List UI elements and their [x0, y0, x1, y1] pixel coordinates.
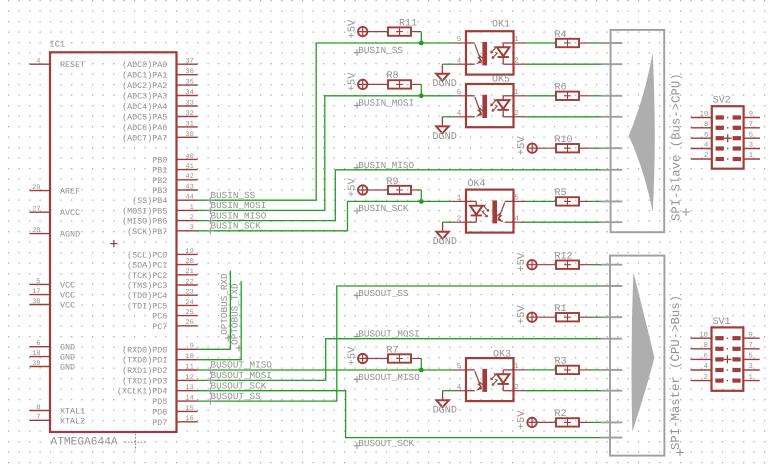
wire R3 to bus red [579, 369, 591, 371]
IC1 pin 28 AGND [30, 227, 81, 240]
IC1 origin cross [125, 434, 148, 451]
svg-text:21: 21 [185, 268, 193, 276]
svg-text:R6: R6 [555, 83, 567, 94]
bus arrow (pointing right) [632, 272, 655, 432]
svg-text:4: 4 [36, 58, 40, 66]
svg-text:OPTOBUS_RXD: OPTOBUS_RXD [219, 273, 230, 335]
bus stub at y170 [601, 169, 622, 171]
svg-text:7: 7 [749, 342, 753, 350]
IC1 pin 7 XTAL2 [30, 414, 86, 427]
svg-text:PB2: PB2 [152, 176, 167, 186]
svg-text:6: 6 [36, 340, 40, 348]
svg-text:(ADC1)PA1: (ADC1)PA1 [122, 71, 167, 81]
wire R9 left [367, 189, 388, 191]
+5V supply supply for R8 [357, 79, 368, 90]
bus stub at y117 [601, 116, 622, 118]
wire R9 drop [420, 190, 422, 201]
bus frame SPI-Slave (Bus->CPU) [611, 30, 665, 232]
wire BUSOUT_SCK from PD4 [198, 391, 602, 438]
junction at x421 y201 [419, 199, 424, 204]
IC1 pin 40 PB0 [152, 153, 197, 166]
svg-text:28: 28 [32, 227, 40, 235]
svg-text:(ADC0)PA0: (ADC0)PA0 [122, 60, 167, 70]
net label OPTOBUS_TXD [230, 283, 243, 351]
net label BUSOUT_MOSI [207, 370, 272, 384]
wire OK4 pin2 to DGND [443, 221, 453, 223]
svg-text:42: 42 [185, 173, 193, 181]
net label BUSOUT_MOSI [354, 329, 420, 340]
svg-text:(TMS)PC3: (TMS)PC3 [127, 281, 167, 291]
svg-text:8: 8 [704, 342, 708, 350]
svg-text:PD7: PD7 [152, 418, 167, 428]
resistor R8 [388, 80, 411, 88]
bus stub at y64 [601, 63, 622, 65]
wire OK3 pin4 to DGND [443, 390, 453, 392]
ground symbol DGND [436, 391, 448, 408]
svg-text:38: 38 [32, 298, 40, 306]
+5V supply supply for R11 [357, 26, 368, 37]
svg-text:R9: R9 [387, 177, 399, 188]
svg-text:(TDO)PC4: (TDO)PC4 [127, 291, 167, 301]
svg-text:BUSOUT_SCK: BUSOUT_SCK [211, 380, 267, 391]
svg-text:R10: R10 [555, 135, 573, 146]
svg-text:35: 35 [185, 79, 193, 87]
wire R2 left [537, 421, 557, 423]
svg-text:BUSIN_SS: BUSIN_SS [358, 45, 403, 56]
IC1 pin 1 (MOSI)PB5 [122, 204, 198, 217]
wire R9 right [411, 189, 421, 191]
svg-text:VCC: VCC [60, 280, 75, 290]
optocoupler OK4 [466, 190, 514, 233]
svg-text:9: 9 [190, 343, 194, 351]
svg-text:(SDA)PC1: (SDA)PC1 [127, 261, 167, 271]
bus stub at y286 [601, 285, 622, 287]
IC1 pin 2 (MISO)PB6 [122, 214, 198, 227]
ground symbol DGND [436, 117, 448, 134]
wire OK4 pin4 to bus [526, 221, 601, 223]
resistor R10 [556, 144, 579, 152]
resistor R2 [556, 418, 579, 426]
SV1 pin 10 [691, 331, 724, 340]
svg-text:10: 10 [185, 353, 193, 361]
svg-text:24: 24 [185, 299, 193, 307]
wire R8 left [367, 83, 388, 85]
svg-text:SV2: SV2 [713, 96, 731, 107]
bus stub at y391 [601, 390, 622, 392]
net label BUSIN_SS [354, 45, 404, 56]
connector SV1 body [712, 327, 744, 390]
svg-text:4: 4 [704, 142, 708, 150]
bus stub at y148 [601, 147, 622, 149]
wire OK4 pin2 stub [453, 221, 466, 223]
wire OK3 pin2 to bus [526, 390, 601, 392]
wire OK1 pin4 to DGND [442, 63, 453, 65]
SV1 pin 3 [732, 363, 759, 372]
bus stub at y265 [601, 264, 622, 266]
IC1 pin 21 (TCK)PC2 [127, 268, 198, 281]
IC IC1 ATMEGA644A body [50, 52, 177, 432]
IC1 pin 36 (ADC1)PA1 [122, 68, 198, 81]
pin numbers of OK4 [457, 195, 520, 224]
svg-text:+5V: +5V [516, 252, 528, 272]
IC1 pin 8 XTAL1 [30, 404, 86, 417]
svg-text:(TDI)PC5: (TDI)PC5 [127, 301, 167, 311]
IC1 pin 20 (SDA)PC1 [127, 258, 198, 271]
svg-text:18: 18 [32, 350, 40, 358]
pin numbers of OK1 [457, 36, 520, 65]
IC1 pin 41 PB1 [152, 163, 197, 176]
svg-text:17: 17 [32, 288, 40, 296]
ground symbol DGND [436, 64, 448, 81]
svg-text:1: 1 [749, 152, 753, 160]
svg-text:14: 14 [185, 394, 193, 402]
net label BUSIN_MISO [354, 160, 415, 171]
svg-text:(RXD1)PD2: (RXD1)PD2 [122, 366, 167, 376]
resistor R5 [556, 197, 579, 205]
SV1 pin 9 [732, 331, 759, 340]
SV2 pin 9 [733, 111, 760, 120]
IC1 pin 30 (ADC7)PA7 [122, 131, 198, 144]
SV2 pin 10 [691, 111, 724, 120]
wire R11 right [411, 31, 421, 33]
svg-text:8: 8 [704, 121, 708, 129]
wire R10 left [537, 147, 556, 149]
optocoupler OK5 [466, 84, 514, 127]
svg-text:PB1: PB1 [152, 166, 167, 176]
svg-text:XTAL1: XTAL1 [60, 407, 85, 417]
svg-text:PB0: PB0 [152, 155, 167, 165]
svg-text:DGND: DGND [432, 79, 456, 90]
+5V supply supply for R9 [357, 184, 368, 195]
svg-text:(ADC2)PA2: (ADC2)PA2 [122, 81, 167, 91]
svg-text:R1: R1 [555, 304, 567, 315]
wire R5 to bus red [579, 200, 591, 202]
svg-text:3: 3 [749, 142, 753, 150]
wire OK1 pin1 to R4 [526, 42, 556, 44]
SV2 pin 5 [733, 131, 760, 140]
wire OK1 pin2 stub [514, 63, 527, 65]
svg-text:BUSOUT_SS: BUSOUT_SS [211, 391, 262, 402]
svg-text:GND: GND [60, 353, 75, 363]
svg-text:PD6: PD6 [152, 407, 167, 417]
svg-text:(ADC6)PA6: (ADC6)PA6 [122, 123, 167, 133]
svg-text:R5: R5 [555, 188, 567, 199]
wire OK4 pin1 stub [453, 200, 466, 202]
junction at x421 y96 [419, 93, 424, 98]
SV1 pin 4 [691, 363, 724, 372]
svg-text:6: 6 [704, 353, 708, 361]
IC1 pin 39 GND [30, 360, 76, 373]
resistor R6 [556, 92, 579, 100]
svg-text:3: 3 [190, 224, 194, 232]
svg-text:(ADC7)PA7: (ADC7)PA7 [122, 133, 167, 143]
resistor R12 [556, 261, 579, 269]
IC1 pin 16 PD7 [152, 415, 197, 428]
IC1 pin 29 AREF [30, 184, 81, 197]
svg-text:DGND: DGND [433, 237, 457, 248]
svg-text:16: 16 [185, 415, 193, 423]
SV1 center mark [727, 348, 728, 349]
wire R5 to bus [591, 200, 602, 202]
bus arrow (pointing left) [629, 53, 655, 212]
IC1 pin 10 (TXD0)PD1 [122, 353, 198, 366]
svg-text:R2: R2 [555, 409, 567, 420]
wire R11 drop [420, 32, 422, 43]
IC1 pin 14 PD5 [152, 394, 197, 407]
svg-text:BUSIN_SCK: BUSIN_SCK [358, 203, 409, 214]
IC1 pin 18 GND [30, 350, 76, 363]
IC1 pin 9 (RXD0)PD0 [122, 343, 198, 356]
+5V supply supply for R1 [526, 312, 537, 323]
svg-text:1: 1 [190, 204, 194, 212]
wire R1 to bus red [579, 316, 591, 318]
svg-text:XTAL2: XTAL2 [60, 416, 85, 426]
+5V supply supply for R12 [526, 259, 537, 270]
svg-text:RESET: RESET [60, 60, 85, 70]
pin numbers of OK3 [457, 363, 520, 392]
IC1 pin 26 PC7 [152, 319, 197, 332]
wire R7 drop [420, 359, 422, 370]
net label BUSIN_SCK [207, 221, 261, 235]
svg-text:25: 25 [185, 309, 193, 317]
svg-text:30: 30 [185, 131, 193, 139]
svg-text:OK3: OK3 [493, 350, 511, 361]
svg-text:DGND: DGND [432, 132, 456, 143]
resistor R9 [388, 186, 411, 194]
bus stub at y96 [601, 95, 622, 97]
svg-text:BUSOUT_MOSI: BUSOUT_MOSI [358, 329, 419, 340]
svg-text:AGND: AGND [60, 230, 80, 240]
svg-text:9: 9 [749, 111, 753, 119]
svg-text:5: 5 [457, 363, 462, 371]
wire OK3 pin1 stub [514, 369, 527, 371]
connector SV2 body [712, 106, 744, 169]
net label BUSIN_MOSI [207, 200, 266, 214]
bus stub at y422 [601, 421, 622, 423]
wire OK1 pin2 to bus [526, 63, 601, 65]
resistor R1 [556, 313, 579, 321]
SV2 pin 7 [733, 121, 760, 130]
net label BUSIN_SCK [354, 203, 409, 214]
svg-text:+5V: +5V [516, 305, 528, 325]
resistor R3 [556, 366, 579, 374]
junction at x421 y370 [419, 368, 424, 373]
IC1 pin 19 (SCL)PC0 [127, 248, 198, 261]
wire R12 to bus red [579, 264, 591, 266]
svg-text:10: 10 [700, 111, 709, 119]
wire BUSIN_SS from PB4 [198, 43, 453, 200]
svg-text:2: 2 [190, 214, 194, 222]
wire OK3 pin5 stub [453, 369, 466, 371]
wire OK5 pin1 to R6 [526, 95, 556, 97]
svg-text:PB3: PB3 [152, 186, 167, 196]
svg-text:(SCL)PC0: (SCL)PC0 [127, 250, 167, 260]
svg-text:+5V: +5V [347, 72, 359, 92]
svg-text:1: 1 [749, 374, 753, 382]
wire R7 left [367, 358, 388, 360]
wire R10 to bus red [579, 147, 591, 149]
svg-text:R3: R3 [555, 357, 567, 368]
svg-text:OPTOBUS_TXD: OPTOBUS_TXD [230, 283, 241, 345]
net label BUSIN_MOSI [354, 98, 414, 109]
svg-text:43: 43 [185, 183, 193, 191]
pin numbers of OK5 [457, 89, 520, 118]
wire R4 to bus [591, 42, 602, 44]
net label BUSIN_MISO [207, 210, 267, 224]
svg-text:34: 34 [185, 89, 193, 97]
resistor R4 [556, 39, 579, 47]
wire R1 to bus [591, 316, 602, 318]
svg-text:AREF: AREF [60, 187, 80, 197]
svg-text:BUSOUT_SS: BUSOUT_SS [358, 288, 409, 299]
svg-text:(TXD1)PD3: (TXD1)PD3 [122, 376, 167, 386]
svg-text:39: 39 [32, 360, 40, 368]
wire OK3 pin2 stub [514, 390, 527, 392]
svg-text:SPI-Slave (Bus->CPU): SPI-Slave (Bus->CPU) [670, 73, 684, 221]
junction at x421 y43 [419, 41, 424, 46]
svg-text:5: 5 [36, 278, 40, 286]
SV2 center mark [727, 127, 728, 128]
+5V supply supply for R7 [357, 353, 368, 364]
svg-text:SV1: SV1 [713, 317, 731, 328]
net label OPTOBUS_RXD [219, 273, 232, 341]
svg-text:(MOSI)PB5: (MOSI)PB5 [122, 206, 167, 216]
svg-text:(RXD0)PD0: (RXD0)PD0 [122, 345, 167, 355]
svg-text:12: 12 [185, 374, 193, 382]
svg-text:2: 2 [704, 152, 708, 160]
bus stub at y201 [601, 200, 622, 202]
IC1 pin 15 PD6 [152, 405, 197, 418]
svg-text:22: 22 [185, 278, 193, 286]
svg-text:41: 41 [185, 163, 193, 171]
svg-text:10: 10 [699, 331, 708, 339]
wire R11 left [367, 31, 388, 33]
svg-text:36: 36 [185, 68, 193, 76]
wire OK3 pin1 to R3 [526, 369, 556, 371]
SV2 pin 1 [733, 152, 760, 161]
wire OK5 pin4 stub [453, 116, 466, 118]
svg-text:(MISO)PB6: (MISO)PB6 [122, 217, 167, 227]
svg-text:(SS)PB4: (SS)PB4 [132, 196, 167, 206]
IC1 pin 22 (TMS)PC3 [127, 278, 198, 291]
svg-text:BUSOUT_SCK: BUSOUT_SCK [358, 438, 414, 449]
SV2 pin 4 [691, 142, 724, 151]
net label BUSOUT_SS [354, 288, 409, 299]
svg-text:DGND: DGND [433, 406, 457, 417]
wire R12 left [537, 264, 557, 266]
SV2 pin 3 [733, 142, 760, 151]
optocoupler OK1 [466, 31, 514, 74]
net label BUSIN_SS [207, 190, 256, 204]
svg-text:R4: R4 [555, 30, 567, 41]
wire OK5 pin1 stub [514, 95, 527, 97]
bus stub at y438 [601, 437, 622, 439]
net label BUSOUT_MISO [207, 360, 272, 374]
svg-text:AVCC: AVCC [60, 208, 80, 218]
svg-text:5: 5 [457, 89, 462, 97]
wire R10 to bus [591, 147, 602, 149]
wire R8 right [411, 83, 421, 85]
wire OPTOBUS_RXD from PD0 [198, 271, 231, 350]
wire OK4 pin4 stub [514, 221, 527, 223]
svg-text:(XCLK1)PD4: (XCLK1)PD4 [117, 387, 167, 397]
wire R7 right [411, 358, 421, 360]
bus stub at y317 [601, 316, 622, 318]
wire OK5 pin4 to DGND [442, 116, 453, 118]
wire R1 left [537, 316, 557, 318]
svg-text:+5V: +5V [347, 19, 359, 39]
IC1 pin 5 VCC [30, 278, 76, 291]
IC1 pin 33 (ADC4)PA4 [122, 99, 198, 112]
wire R2 to bus red [579, 421, 591, 423]
SV1 pin 2 [691, 374, 724, 383]
svg-text:4: 4 [704, 363, 708, 371]
svg-text:7: 7 [749, 121, 753, 129]
net label BUSOUT_SCK [354, 438, 415, 449]
SV2 center mark [727, 158, 728, 159]
IC1 pin 3 (SCK)PB7 [127, 224, 198, 237]
svg-text:27: 27 [32, 206, 40, 214]
resistor R7 [388, 354, 411, 362]
IC1 pin 11 (RXD1)PD2 [122, 363, 198, 376]
bus stub at y222 [601, 221, 622, 223]
IC1 pin 37 (ADC0)PA0 [122, 58, 198, 71]
net label BUSOUT_MISO [354, 372, 420, 383]
SV1 center mark [727, 380, 728, 381]
svg-text:(TXD0)PD1: (TXD0)PD1 [122, 356, 167, 366]
wire R8 drop [420, 84, 422, 95]
svg-text:33: 33 [185, 99, 193, 107]
wire OK3 pin4 stub [453, 390, 466, 392]
wire BUSIN_MOSI from PB5 [198, 96, 453, 211]
IC1 pin 6 GND [30, 340, 76, 353]
svg-text:VCC: VCC [60, 301, 75, 311]
SV2 pin 8 [691, 121, 724, 130]
svg-text:(ADC4)PA4: (ADC4)PA4 [122, 102, 167, 112]
wire OK1 pin5 stub [453, 42, 466, 44]
svg-text:VCC: VCC [60, 291, 75, 301]
bus stub at y339 [601, 338, 622, 340]
IC1 pin 32 (ADC5)PA5 [122, 110, 198, 123]
+5V supply supply for R10 [527, 143, 538, 154]
SV1 pin 8 [691, 342, 724, 351]
svg-text:(ADC5)PA5: (ADC5)PA5 [122, 113, 167, 123]
IC1 pin 24 (TDI)PC5 [127, 299, 198, 312]
label SPI-Slave (Bus->CPU) [670, 73, 690, 221]
wire OK1 pin4 stub [453, 63, 466, 65]
SV1 origin cross [723, 355, 731, 363]
svg-text:BUSOUT_MISO: BUSOUT_MISO [211, 360, 273, 371]
IC1 pin 42 PB2 [152, 173, 197, 186]
svg-text:5: 5 [749, 131, 753, 139]
optocoupler OK3 [466, 358, 514, 401]
svg-text:5: 5 [749, 353, 753, 361]
svg-text:3: 3 [749, 363, 753, 371]
IC1 pin 17 VCC [30, 288, 76, 301]
svg-text:R8: R8 [387, 71, 399, 82]
svg-text:15: 15 [185, 405, 193, 413]
svg-text:OK4: OK4 [468, 179, 486, 190]
svg-text:OK1: OK1 [492, 20, 510, 31]
wire BUSIN_MISO from PB6 [198, 170, 602, 221]
svg-text:OK5: OK5 [492, 75, 510, 86]
IC1 internal origin mark [110, 240, 117, 247]
svg-text:R7: R7 [387, 345, 399, 356]
svg-text:8: 8 [36, 404, 40, 412]
SV1 pin 6 [691, 353, 724, 362]
wire R2 to bus [591, 421, 602, 423]
svg-text:19: 19 [185, 248, 193, 256]
